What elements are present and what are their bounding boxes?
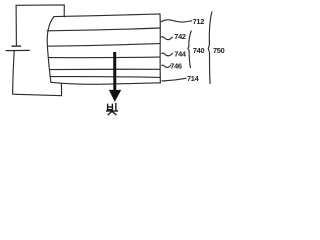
svg-text:746: 746	[170, 62, 182, 71]
wire	[13, 51, 62, 95]
leader 714	[162, 78, 186, 81]
light arrow	[113, 52, 116, 90]
battery B1	[12, 45, 21, 47]
label light (빛 glyph)	[107, 104, 118, 115]
layer line L2	[48, 44, 160, 47]
svg-text:750: 750	[213, 46, 225, 55]
layer line L5	[50, 76, 160, 79]
svg-text:712: 712	[193, 17, 205, 26]
OLED stack outline	[54, 14, 160, 17]
svg-text:742: 742	[174, 32, 186, 41]
layer line L4	[50, 68, 160, 70]
svg-text:714: 714	[187, 74, 200, 83]
brace 750	[208, 12, 212, 84]
svg-text:740: 740	[193, 46, 205, 55]
leader 712	[161, 20, 192, 22]
leader 744	[162, 53, 173, 56]
leader 742	[161, 37, 172, 40]
brace 740	[188, 31, 191, 68]
layer line L3	[49, 56, 160, 59]
leader 746	[162, 65, 171, 67]
layer line L1	[47, 28, 160, 31]
wire	[16, 5, 64, 45]
svg-text:744: 744	[174, 49, 187, 58]
